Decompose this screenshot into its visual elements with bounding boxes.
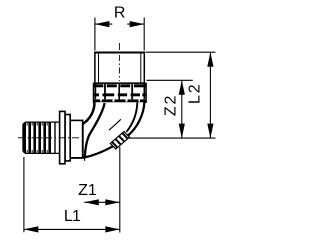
wire: Z1 short left extension xyxy=(84,158,86,161)
wire: Z2 extension line xyxy=(147,79,193,81)
elbow thin mid contour fragment xyxy=(109,119,121,130)
hex nut xyxy=(93,83,146,102)
dimension R line right segment + arrow xyxy=(127,21,144,27)
bottom chamfer dark band with notches xyxy=(94,99,146,102)
elbow inner fillet xyxy=(83,102,95,124)
dimension R line left segment + arrow xyxy=(95,21,112,27)
elbow outer arc xyxy=(83,102,145,158)
wire: R left extension line xyxy=(94,18,96,51)
dimension Z2 xyxy=(179,80,185,138)
dimension Z1 xyxy=(84,199,120,205)
dimension L2 xyxy=(207,52,213,138)
top chamfer dark segments xyxy=(94,84,146,87)
svg-text:L2: L2 xyxy=(186,82,203,104)
wire: centerline extension right (reference for Z2/L2) xyxy=(127,137,215,139)
wire: vertical centerline extension down (reference for Z1/L1) xyxy=(119,147,121,233)
hex vertical edges xyxy=(95,84,144,99)
dimension L1 xyxy=(24,226,120,232)
collar right of flange xyxy=(65,115,70,161)
mid chamfer dark segments xyxy=(94,93,146,96)
body bottom edge xyxy=(70,157,83,159)
elbow contour arc near outer xyxy=(127,102,138,132)
tab on outer bend (hatched) xyxy=(110,132,129,150)
wire: top extension line to L2 xyxy=(146,51,216,53)
cup edge vertical xyxy=(81,122,83,158)
elbow body fill xyxy=(83,102,145,158)
horizontal centerline over part xyxy=(18,137,82,139)
centerline through hex xyxy=(118,84,120,102)
pipe spigot outline xyxy=(23,122,60,153)
svg-text:L1: L1 xyxy=(64,208,81,225)
wire: R right extension line xyxy=(143,18,145,51)
pipe groove tick lines xyxy=(27,123,47,153)
svg-text:R: R xyxy=(114,4,126,21)
svg-text:Z1: Z1 xyxy=(78,182,97,199)
thread body (male thread R) xyxy=(94,53,145,84)
body cup cylinder xyxy=(70,120,82,157)
vertical centerline xyxy=(118,43,120,146)
flange (pipe stop) xyxy=(60,111,65,163)
pipe serration ribs xyxy=(23,123,51,154)
wire: L1 left extension xyxy=(23,157,25,232)
svg-text:Z2: Z2 xyxy=(162,94,179,116)
elbow inner band arc 2 xyxy=(85,103,105,158)
